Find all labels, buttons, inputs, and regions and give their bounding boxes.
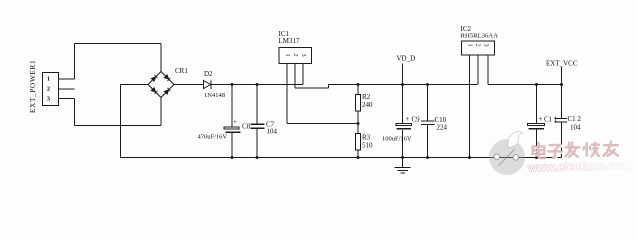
svg-text:2: 2 xyxy=(475,44,482,47)
svg-text:3: 3 xyxy=(300,54,307,57)
svg-text:2: 2 xyxy=(292,54,299,57)
svg-text:1: 1 xyxy=(47,76,50,83)
svg-text:240: 240 xyxy=(362,101,373,109)
svg-text:1: 1 xyxy=(284,54,291,57)
svg-text:C8: C8 xyxy=(242,123,251,131)
svg-text:+: + xyxy=(539,115,543,123)
svg-text:1N4148: 1N4148 xyxy=(204,92,225,99)
svg-text:RH5RL36AA: RH5RL36AA xyxy=(461,33,499,40)
svg-text:C9: C9 xyxy=(412,116,421,124)
svg-text:R2: R2 xyxy=(362,93,371,101)
svg-text:R3: R3 xyxy=(362,134,371,142)
svg-text:D2: D2 xyxy=(204,70,213,78)
svg-text:100uF/16V: 100uF/16V xyxy=(382,136,412,143)
svg-text:+: + xyxy=(233,118,237,126)
svg-text:3: 3 xyxy=(47,96,51,103)
svg-text:224: 224 xyxy=(437,124,448,132)
svg-text:C1 2: C1 2 xyxy=(568,115,582,123)
svg-text:EXT_VCC: EXT_VCC xyxy=(546,60,578,68)
svg-text:+: + xyxy=(406,115,410,123)
svg-text:2: 2 xyxy=(47,86,50,93)
svg-text:470uF/16V: 470uF/16V xyxy=(198,134,228,141)
svg-text:CR1: CR1 xyxy=(175,67,188,75)
svg-text:EXT_POWER1: EXT_POWER1 xyxy=(29,60,37,113)
svg-text:510: 510 xyxy=(362,142,373,150)
svg-text:www.elecfans.com: www.elecfans.com xyxy=(527,159,632,174)
svg-text:3: 3 xyxy=(483,44,490,47)
svg-text:LM317: LM317 xyxy=(279,37,301,45)
svg-text:104: 104 xyxy=(570,124,581,132)
svg-text:1: 1 xyxy=(467,44,474,47)
svg-text:C1 1: C1 1 xyxy=(544,116,558,124)
svg-text:104: 104 xyxy=(267,128,278,136)
svg-text:VD_D: VD_D xyxy=(397,55,416,63)
